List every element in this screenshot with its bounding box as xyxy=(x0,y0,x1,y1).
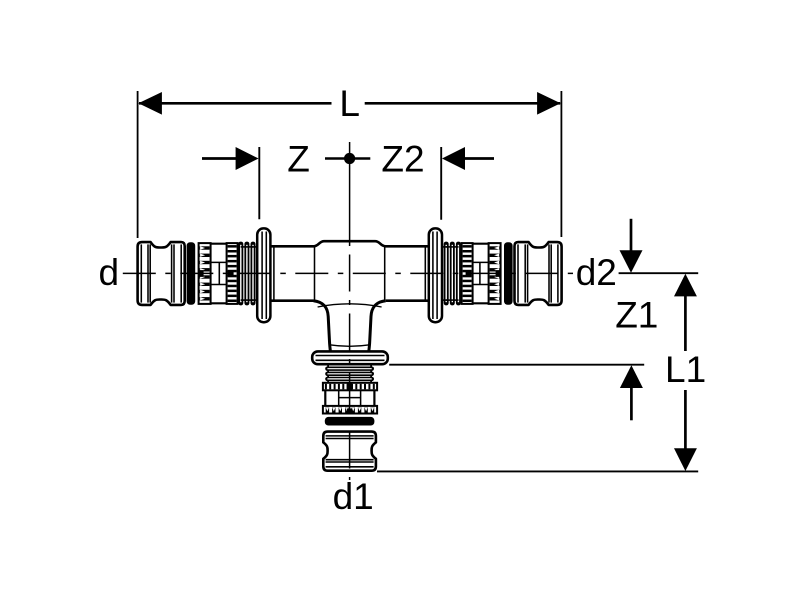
svg-text:Z: Z xyxy=(287,139,310,180)
svg-text:L: L xyxy=(339,83,360,124)
branch flange reference line xyxy=(389,364,644,366)
branch trumpet fillet xyxy=(314,301,386,352)
dimension d2 arrow xyxy=(620,219,643,273)
branch flange collar xyxy=(312,351,388,364)
branch press connection sleeve (outlet d1) xyxy=(323,432,376,471)
tee body xyxy=(270,241,428,301)
right press connection sleeve (outlet d2) xyxy=(441,242,562,306)
svg-text:Z1: Z1 xyxy=(615,295,658,336)
pipe axis centreline xyxy=(123,272,573,274)
left press connection sleeve (outlet d) xyxy=(138,242,259,306)
dimension Z extension line xyxy=(258,147,260,219)
dimension L1 line xyxy=(674,274,697,471)
dimension Z2 arrow xyxy=(442,147,494,170)
label Z1 xyxy=(615,295,658,336)
label L1 xyxy=(665,349,706,390)
right flange collar xyxy=(429,228,442,322)
svg-text:Z2: Z2 xyxy=(381,139,424,180)
branch black press ring xyxy=(325,417,375,426)
dimension Z2 extension line xyxy=(440,147,442,220)
centre reference dot xyxy=(325,153,370,164)
label L xyxy=(339,83,360,124)
label d2 xyxy=(576,252,617,293)
label Z2 xyxy=(381,139,424,180)
svg-text:d: d xyxy=(99,252,120,293)
dimension L line xyxy=(138,92,560,115)
axis reference line right xyxy=(619,272,699,274)
branch smooth band xyxy=(325,390,374,406)
label d1 xyxy=(333,476,374,517)
dimension Z1 arrow xyxy=(620,365,643,420)
dimension L extension line right xyxy=(560,91,562,237)
branch axis centreline xyxy=(349,142,351,480)
label Z xyxy=(287,139,310,180)
svg-text:L1: L1 xyxy=(665,349,706,390)
branch knurl ring lower xyxy=(323,406,377,414)
branch tip reference line xyxy=(377,470,698,472)
branch knurl ring upper xyxy=(323,383,377,391)
label d xyxy=(99,252,120,293)
left flange collar xyxy=(257,228,270,322)
svg-text:d1: d1 xyxy=(333,476,374,517)
dimension L extension line left xyxy=(137,91,139,238)
dimension Z arrow xyxy=(202,147,259,170)
svg-text:d2: d2 xyxy=(576,252,617,293)
branch corrugation rings xyxy=(325,364,374,382)
